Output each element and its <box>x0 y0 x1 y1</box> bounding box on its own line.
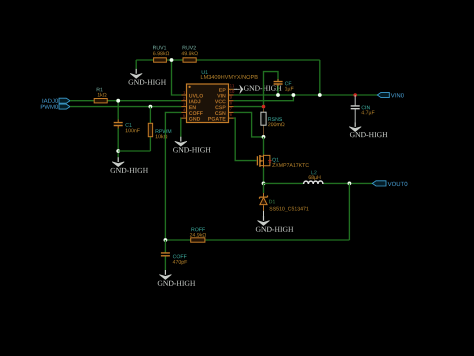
wire COFF pin down <box>165 112 181 240</box>
node IADJ junction <box>116 99 120 103</box>
node COFF junction <box>164 238 168 242</box>
wire CSP to RSNS <box>234 106 264 108</box>
ground GND-HIGH under RUV1 <box>129 69 167 85</box>
node UVLO-VIN junction <box>318 93 322 97</box>
resistor RSNS <box>261 108 285 135</box>
wire PGATE to Q1 gate <box>234 118 257 161</box>
node divider junction <box>170 58 174 62</box>
resistor R1 <box>94 88 107 103</box>
capacitor C1 <box>114 120 140 133</box>
wire top UVLO divider rail <box>136 60 320 95</box>
ground GND-HIGH under D1 <box>256 216 293 232</box>
wire IADJ net <box>70 100 181 102</box>
node C1-RPWM gnd junction <box>116 149 120 153</box>
wire EN net <box>70 106 181 108</box>
node switch node junction <box>262 182 266 186</box>
node CF-VIN junction <box>276 93 280 97</box>
port IADJ0 <box>43 98 71 103</box>
wire CSN to RSNS bottom <box>234 112 264 136</box>
resistor ROFF <box>190 228 206 243</box>
wire D1 branch <box>263 183 265 193</box>
wire switch node rail <box>264 182 373 184</box>
node RSNS-CSN junction <box>262 135 266 139</box>
node VOUT-ROFF junction <box>348 182 352 186</box>
wire VIN rail <box>234 94 378 96</box>
wire UVLO to divider junction <box>172 60 182 95</box>
wire VCC to VIN <box>234 95 294 101</box>
ground GND-HIGH at IC GND pin <box>173 137 211 153</box>
ground GND-HIGH under COFF <box>158 270 196 286</box>
wire C1 branch <box>117 101 119 158</box>
transistor Q1 ZXMP7A17KTC <box>257 155 309 168</box>
wire C1 to RPWM bottom <box>118 139 150 151</box>
ground GND-HIGH at EP pin (rotated right) <box>234 85 282 93</box>
inductor L2 <box>304 171 323 184</box>
ground GND-HIGH under C1 <box>111 157 149 173</box>
resistor RUV1 <box>153 46 169 62</box>
capacitor CF <box>274 79 294 92</box>
capacitor CIN <box>351 95 375 122</box>
node CSP-RSNS junction (red) <box>262 105 266 109</box>
resistor RUV2 <box>182 46 198 62</box>
wire ROFF rail <box>165 183 349 240</box>
diode D1 <box>260 196 309 212</box>
ground GND-HIGH under CIN <box>349 122 387 137</box>
wire GND pin down <box>180 118 183 137</box>
IC U1 LM3409HVMYX/NOPB <box>181 70 257 122</box>
resistor RPWM <box>148 107 171 139</box>
wire CF loop <box>264 72 279 107</box>
port PWM0 <box>41 104 70 109</box>
capacitor COFF <box>161 240 187 270</box>
node VCC-VIN junction <box>292 93 296 97</box>
node VIN-CIN junction (red) <box>353 93 357 97</box>
port VOUT0 <box>372 181 407 186</box>
node EN junction <box>149 105 153 109</box>
wire RSNS junction to Q1 <box>263 137 265 184</box>
port VIN0 <box>377 92 404 97</box>
